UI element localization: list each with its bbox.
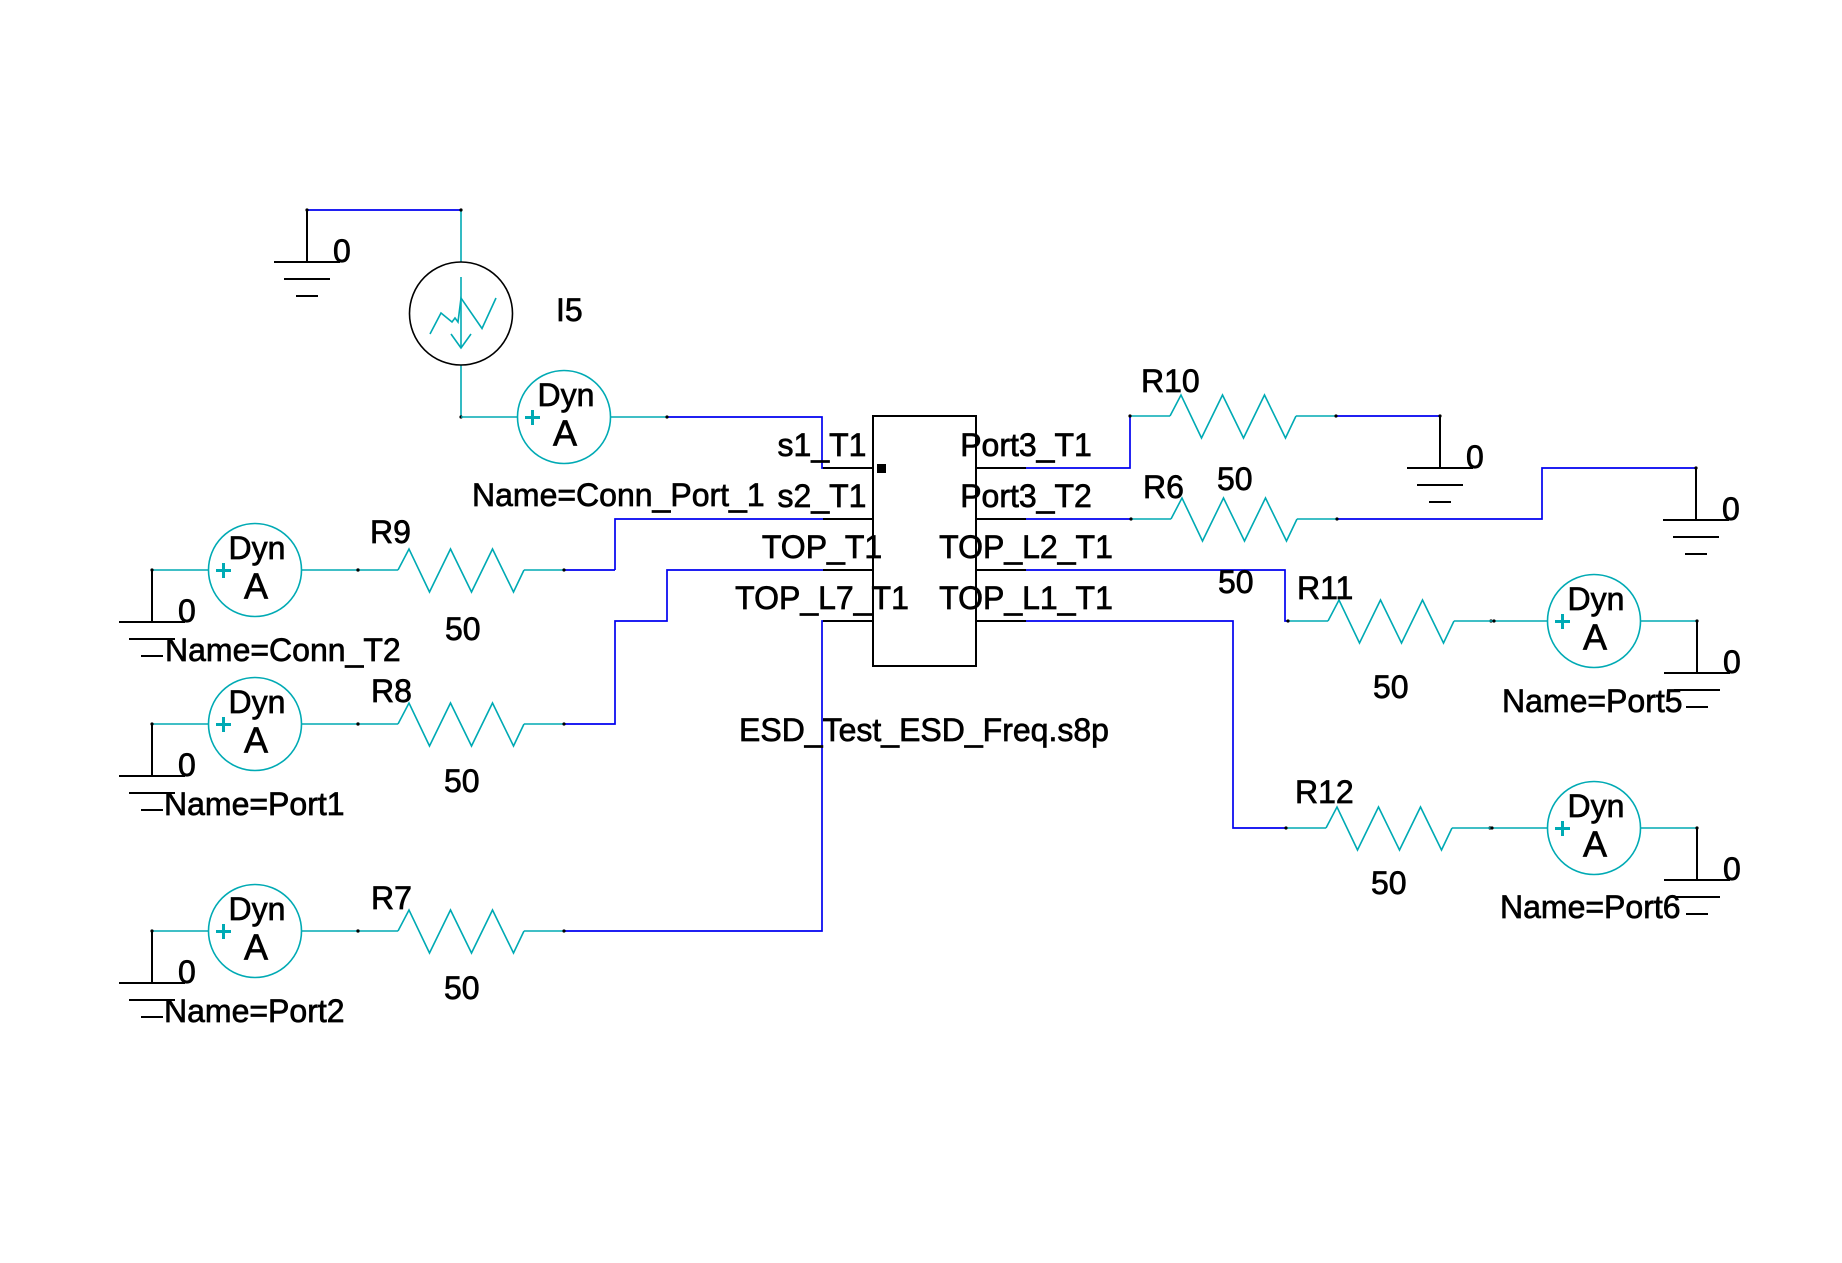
svg-text:50: 50 bbox=[444, 763, 480, 799]
svg-text:A: A bbox=[244, 566, 268, 607]
svg-text:R11: R11 bbox=[1297, 570, 1353, 606]
svg-text:50: 50 bbox=[444, 970, 480, 1006]
svg-text:50: 50 bbox=[445, 611, 481, 647]
svg-text:R10: R10 bbox=[1141, 363, 1200, 399]
svg-text:0: 0 bbox=[333, 233, 351, 269]
svg-text:R7: R7 bbox=[371, 880, 412, 916]
svg-text:TOP_L2_T1: TOP_L2_T1 bbox=[939, 529, 1113, 565]
svg-text:s1_T1: s1_T1 bbox=[778, 427, 867, 463]
svg-text:TOP_L1_T1: TOP_L1_T1 bbox=[939, 580, 1113, 616]
svg-text:A: A bbox=[244, 927, 268, 968]
svg-text:Name=Port6: Name=Port6 bbox=[1500, 889, 1681, 925]
svg-text:TOP_L7_T1: TOP_L7_T1 bbox=[735, 580, 909, 616]
svg-text:Name=Port1: Name=Port1 bbox=[164, 786, 345, 822]
svg-text:R8: R8 bbox=[371, 673, 412, 709]
svg-text:50: 50 bbox=[1218, 564, 1254, 600]
svg-text:Dyn: Dyn bbox=[1568, 788, 1625, 824]
svg-text:0: 0 bbox=[1466, 439, 1484, 475]
svg-text:R6: R6 bbox=[1143, 469, 1184, 505]
svg-text:0: 0 bbox=[1723, 644, 1741, 680]
svg-text:Dyn: Dyn bbox=[229, 684, 286, 720]
svg-text:A: A bbox=[1583, 617, 1607, 658]
svg-text:Dyn: Dyn bbox=[229, 530, 286, 566]
svg-text:0: 0 bbox=[178, 954, 196, 990]
svg-text:Name=Conn_Port_1: Name=Conn_Port_1 bbox=[472, 477, 765, 513]
svg-text:I5: I5 bbox=[556, 292, 583, 328]
svg-text:Dyn: Dyn bbox=[1568, 581, 1625, 617]
svg-text:A: A bbox=[553, 413, 577, 454]
svg-text:Name=Conn_T2: Name=Conn_T2 bbox=[165, 632, 401, 668]
svg-text:50: 50 bbox=[1217, 461, 1253, 497]
svg-text:0: 0 bbox=[1723, 851, 1741, 887]
svg-text:A: A bbox=[244, 720, 268, 761]
svg-text:s2_T1: s2_T1 bbox=[778, 478, 867, 514]
svg-text:Name=Port2: Name=Port2 bbox=[164, 993, 345, 1029]
svg-text:Port3_T2: Port3_T2 bbox=[960, 478, 1092, 514]
svg-text:50: 50 bbox=[1373, 669, 1409, 705]
svg-text:50: 50 bbox=[1371, 865, 1407, 901]
svg-text:0: 0 bbox=[178, 747, 196, 783]
svg-text:TOP_T1: TOP_T1 bbox=[762, 529, 882, 565]
svg-text:R9: R9 bbox=[370, 514, 411, 550]
svg-text:0: 0 bbox=[178, 593, 196, 629]
svg-text:Name=Port5: Name=Port5 bbox=[1502, 683, 1683, 719]
svg-text:ESD_Test_ESD_Freq.s8p: ESD_Test_ESD_Freq.s8p bbox=[739, 712, 1109, 748]
svg-text:0: 0 bbox=[1722, 491, 1740, 527]
svg-text:Dyn: Dyn bbox=[229, 891, 286, 927]
svg-text:Port3_T1: Port3_T1 bbox=[960, 427, 1092, 463]
svg-text:A: A bbox=[1583, 824, 1607, 865]
svg-text:Dyn: Dyn bbox=[538, 377, 595, 413]
svg-text:R12: R12 bbox=[1295, 774, 1354, 810]
